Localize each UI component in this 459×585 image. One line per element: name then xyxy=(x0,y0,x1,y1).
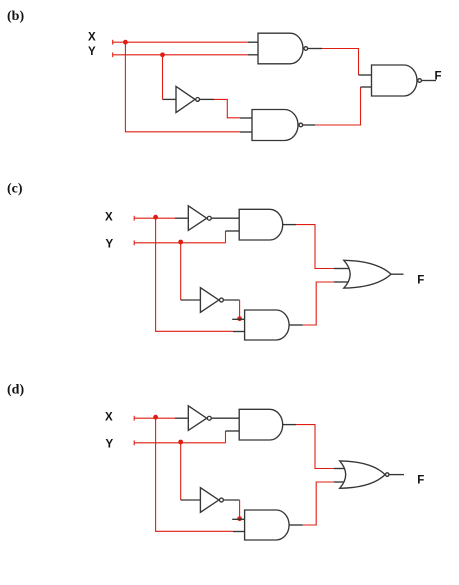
wire Y input stub black (b) xyxy=(248,54,258,56)
wire stub into AND2 input 2 (c) xyxy=(233,331,245,333)
wire X input stub black (c) xyxy=(175,217,188,219)
wire NAND1 output to NAND3 input 1 (b) xyxy=(322,49,359,76)
node junction dot on Y (d) xyxy=(178,440,183,445)
wire Y input (b) xyxy=(113,52,248,57)
wire AND1 output to OR input 1 (c) xyxy=(296,225,334,269)
wire stub into AND2 input 2 (d) xyxy=(233,531,245,533)
OR gate (c) xyxy=(344,260,404,288)
svg-text:Y: Y xyxy=(88,46,96,58)
NAND gate 1 top (b) xyxy=(258,33,322,64)
svg-text:(d): (d) xyxy=(7,383,24,398)
svg-text:X: X xyxy=(105,212,113,224)
wire stub into NOR input 2 (d) xyxy=(334,481,346,483)
NAND gate 3 output (b) xyxy=(372,65,437,96)
inverter U1 (d) xyxy=(188,406,239,431)
wire inverter 2 output down to AND2 input 1 (d) xyxy=(239,500,241,518)
svg-text:X: X xyxy=(105,412,113,424)
node junction dot at AND2 input 1 (c) xyxy=(237,316,242,321)
wire stub into NAND2 input 1 (b) xyxy=(240,117,252,119)
wire Y branch down to inverter (b) xyxy=(162,55,164,100)
AND gate 1 top (d) xyxy=(239,409,296,440)
node junction dot on X (c) xyxy=(153,215,158,220)
wire X branch down to AND2 input 2 (c) xyxy=(156,218,233,331)
AND gate 1 top (c) xyxy=(239,209,296,240)
wire Y input (d) xyxy=(134,431,225,445)
wire stub into NAND2 input 2 (b) xyxy=(240,131,252,133)
inverter U1 (b) xyxy=(176,86,214,112)
wire stub into AND2 input 1 (d) xyxy=(232,518,244,520)
svg-text:F: F xyxy=(417,475,424,487)
node junction dot on X (d) xyxy=(153,415,158,420)
node junction dot on X (b) xyxy=(123,40,128,45)
wire X input (d) xyxy=(134,416,175,421)
wire stub into OR input 1 (c) xyxy=(334,268,350,270)
node junction dot at AND2 input 1 (d) xyxy=(237,516,242,521)
wire inverter 2 output down to AND2 input 1 (c) xyxy=(239,300,241,318)
inverter U2 (c) xyxy=(200,288,239,313)
wire Y input (c) xyxy=(134,231,225,245)
wire NAND2 output to NAND3 input 2 (b) xyxy=(315,87,361,125)
wire AND1 output to NOR input 1 (d) xyxy=(296,425,334,469)
wire AND2 output to OR input 2 (c) xyxy=(303,282,334,325)
svg-text:(b): (b) xyxy=(7,9,24,24)
svg-text:F: F xyxy=(435,71,442,83)
wire stub into NOR input 1 (d) xyxy=(334,468,346,470)
wire AND2 output to NOR input 2 (d) xyxy=(303,482,334,525)
wire X branch down to AND2 input 2 (d) xyxy=(156,418,233,531)
svg-text:F: F xyxy=(417,275,424,287)
wire stub into inverter input (b) xyxy=(163,98,177,100)
inverter U1 (c) xyxy=(188,206,239,231)
wire X input stub black (b) xyxy=(248,41,258,43)
wire stub into AND1 input 2 (d) xyxy=(226,430,240,432)
wire stub into inverter 2 input (c) xyxy=(181,299,201,301)
AND gate 2 bottom (c) xyxy=(245,310,303,340)
node junction dot on Y (c) xyxy=(178,240,183,245)
AND gate 2 bottom (d) xyxy=(245,510,303,540)
wire X input (c) xyxy=(134,216,175,221)
wire Y branch down to inverter 2 (c) xyxy=(180,243,182,300)
NAND gate 2 bottom (b) xyxy=(252,110,315,141)
svg-text:Y: Y xyxy=(106,439,114,451)
svg-text:Y: Y xyxy=(106,239,114,251)
wire Y branch down to inverter 2 (d) xyxy=(180,443,182,500)
wire X input (b) xyxy=(113,40,248,45)
NOR gate (d) xyxy=(340,461,404,488)
wire stub into NAND3 input 2 (b) xyxy=(361,86,372,88)
svg-text:X: X xyxy=(88,32,96,44)
wire stub into OR input 2 (c) xyxy=(334,281,350,283)
wire stub into inverter 2 input (d) xyxy=(181,499,201,501)
svg-text:(c): (c) xyxy=(7,182,23,197)
wire stub into NAND3 input 1 (b) xyxy=(359,74,372,76)
wire stub into AND2 input 1 (c) xyxy=(232,318,244,320)
wire stub into AND1 input 2 (c) xyxy=(226,230,240,232)
node junction dot on Y (b) xyxy=(160,52,165,57)
wire X branch down to bottom NAND (b) xyxy=(125,42,240,132)
wire X input stub black (d) xyxy=(175,417,188,419)
wire inverter output to NAND2 input 1 (b) xyxy=(214,99,240,117)
inverter U2 (d) xyxy=(200,488,239,513)
